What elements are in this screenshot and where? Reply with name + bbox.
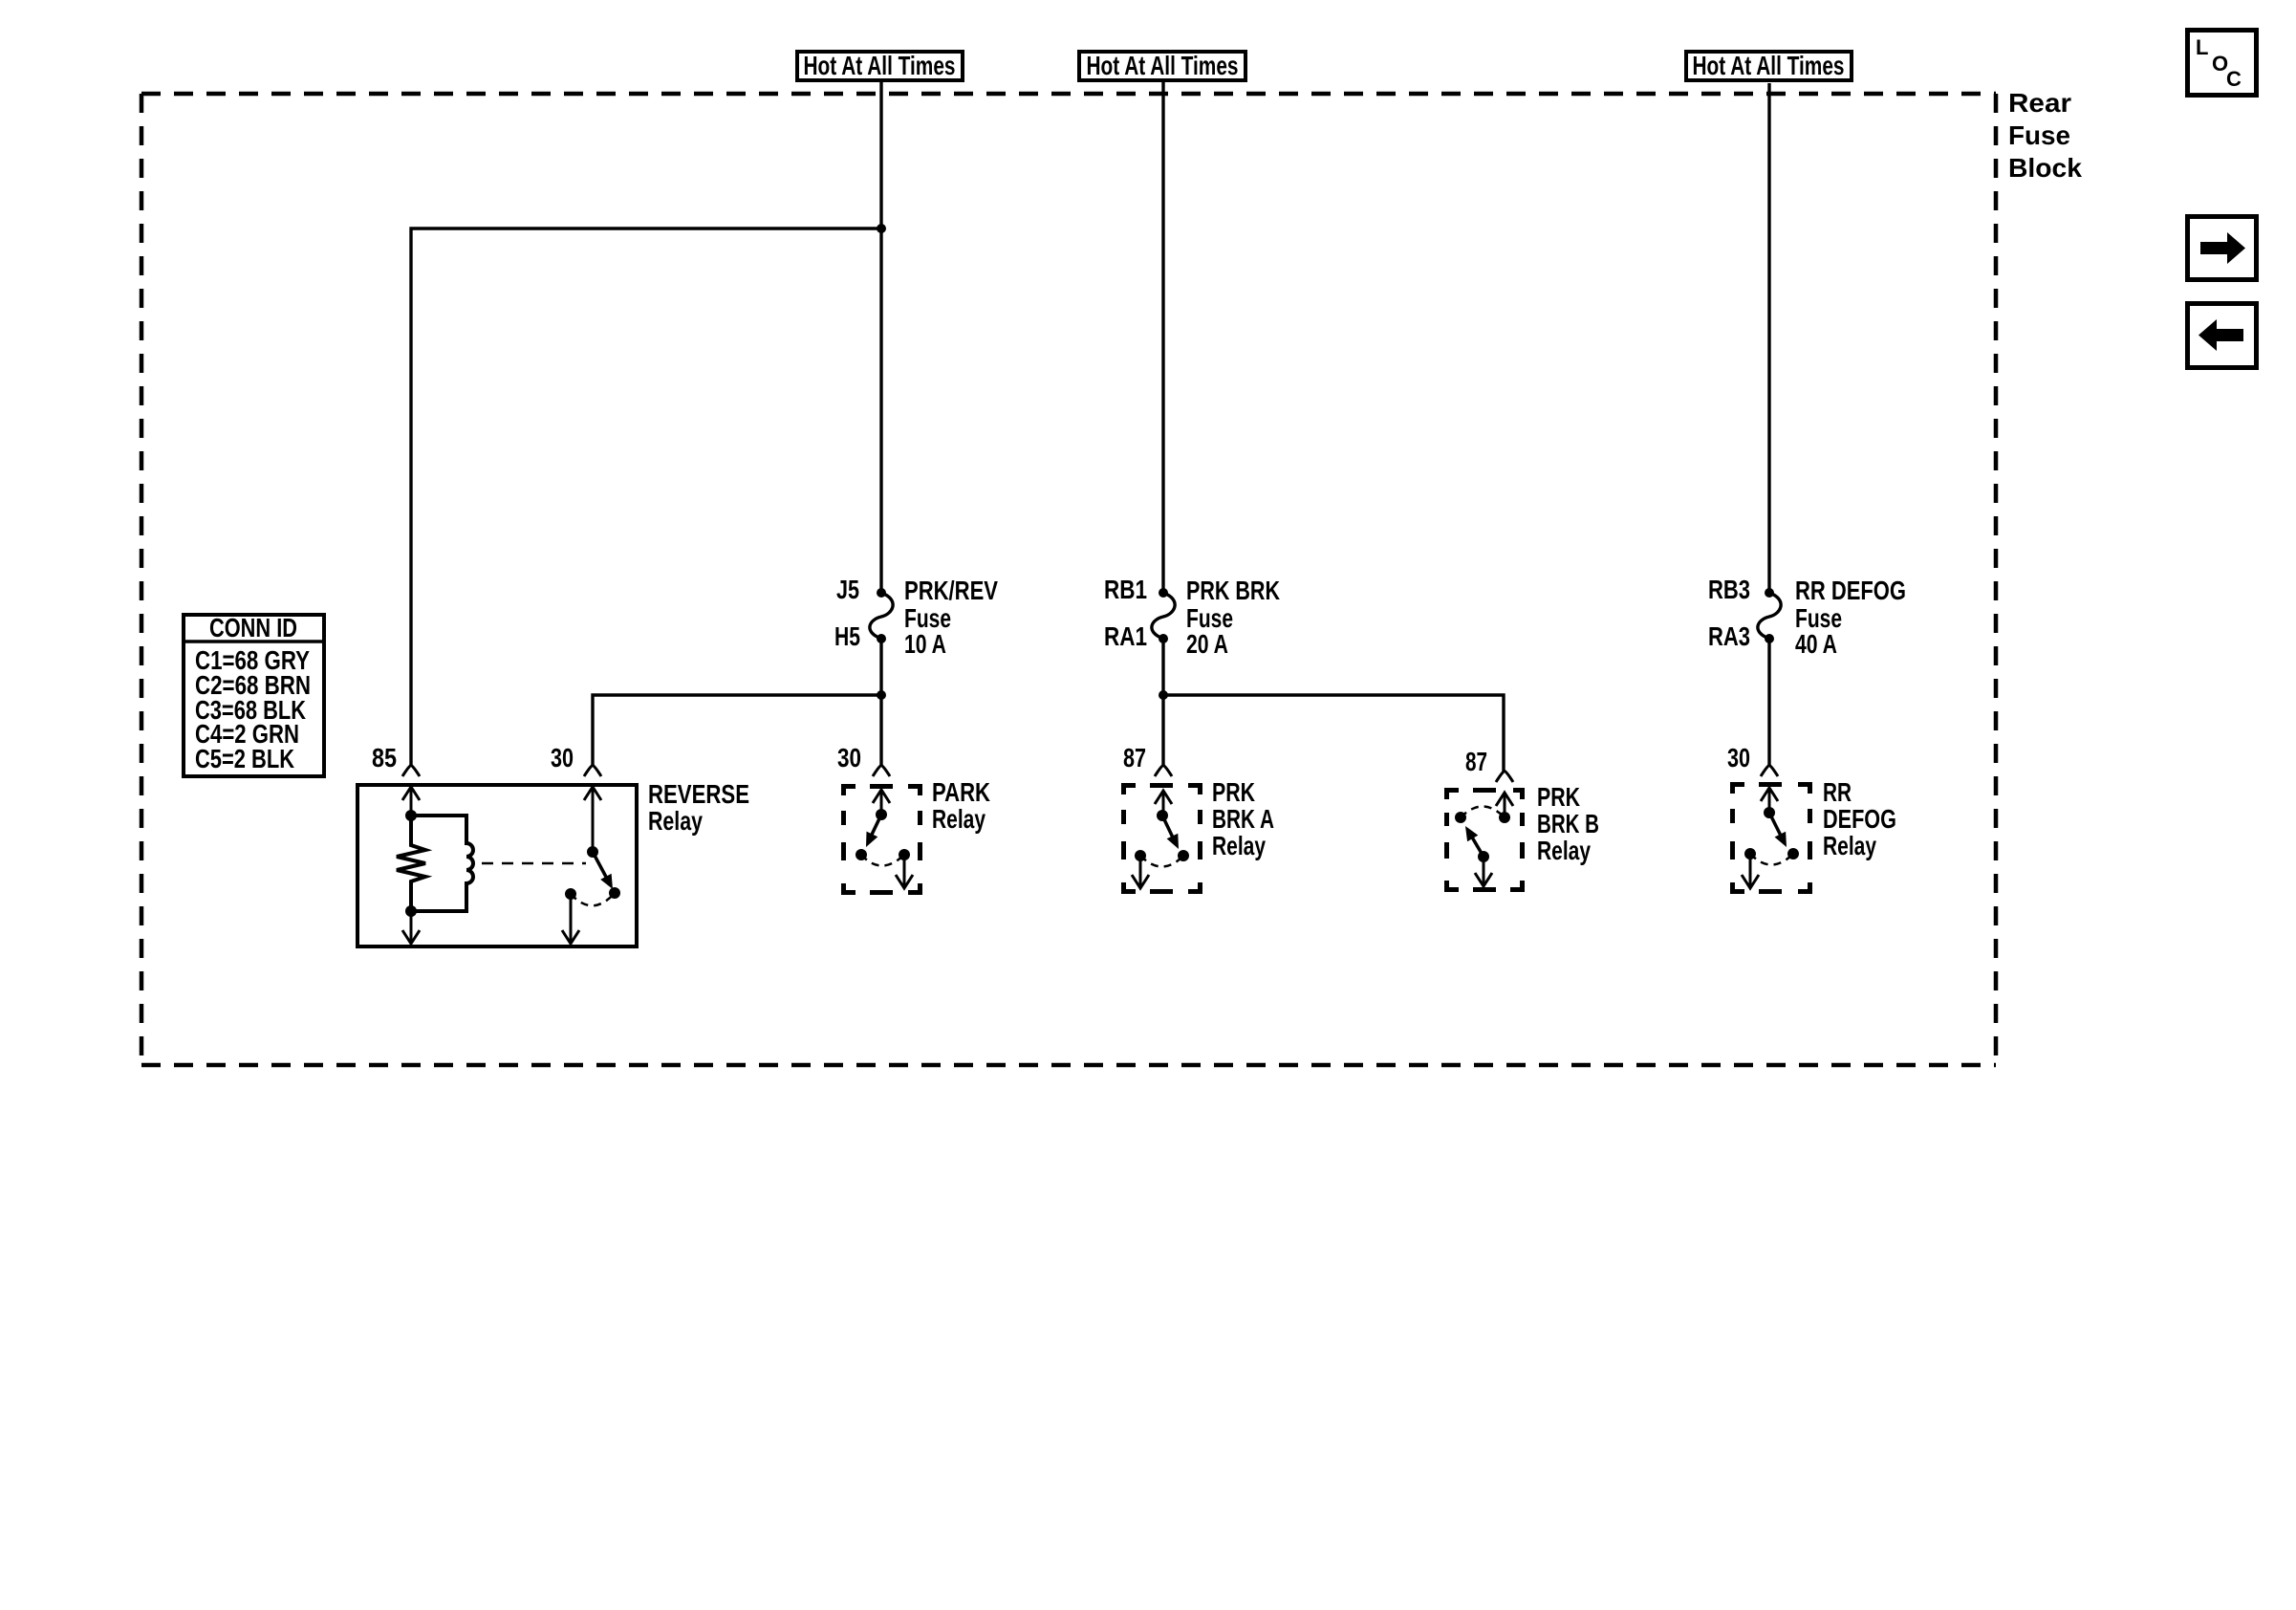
REVERSE relay pin 85 entry arrow (up) [402, 787, 420, 800]
wire: NC contact exit with down arrow (RR DEFOG) [1749, 854, 1752, 887]
svg-text:C5=2 BLK: C5=2 BLK [195, 744, 294, 773]
resistor (REVERSE relay coil suppression) [397, 816, 425, 911]
LOC page-reference box [2188, 31, 2257, 96]
svg-text:RR DEFOG: RR DEFOG [1795, 576, 1906, 605]
node: switch common pole (REVERSE) [587, 846, 598, 858]
relay PARK dashed outline [841, 784, 922, 895]
fuse PRK/REV 10 A (element symbol between J5 and H5) [870, 593, 893, 639]
node: switch common pole (PRK BRK B) [1478, 851, 1489, 862]
wire: branch from fuse2 output to PRK BRK B relay pin 87 [1163, 695, 1504, 772]
next-page arrow box [2188, 217, 2257, 280]
PARK relay pin 30 entry arrow (up) [873, 790, 890, 803]
svg-text:RB3: RB3 [1708, 575, 1750, 604]
node: NC contact (REVERSE) [565, 888, 576, 900]
svg-text:PRK: PRK [1212, 777, 1255, 807]
connector pin 30 chevron (RR DEFOG relay) [1761, 766, 1778, 777]
svg-text:Relay: Relay [1537, 836, 1592, 865]
svg-text:DEFOG: DEFOG [1823, 804, 1896, 834]
junction node fuse1 output branch [877, 690, 886, 700]
switch arm with arrowhead (PRK BRK B) [1471, 836, 1484, 857]
wire: from fuse2 RA1 down to PRK BRK A relay pin 87 [1161, 639, 1164, 767]
svg-text:RA1: RA1 [1104, 621, 1147, 651]
switch arm with arrowhead (REVERSE) [593, 852, 607, 879]
label PRK BRK B Relay [1537, 782, 1599, 865]
label PARK Relay [932, 777, 990, 834]
svg-text:40 A: 40 A [1795, 629, 1837, 659]
svg-text:Relay: Relay [648, 806, 704, 836]
svg-text:PRK: PRK [1537, 782, 1580, 812]
svg-text:H5: H5 [834, 621, 860, 651]
svg-text:PRK/REV: PRK/REV [904, 576, 999, 605]
svg-text:C: C [2226, 67, 2242, 91]
wire: branch from fuse1 output to REVERSE relay pin 30 [593, 695, 881, 767]
label REVERSE Relay [648, 779, 749, 836]
CONN ID table [184, 613, 324, 776]
node: NO contact (RR DEFOG) [1787, 848, 1799, 859]
connector pin 30 chevron (PARK relay) [873, 766, 890, 777]
dashed throw arc (RR DEFOG switch) [1750, 854, 1793, 865]
connector pin 85 chevron (REVERSE relay) [402, 766, 420, 777]
wire: from fuse3 RA3 down to RR DEFOG relay pin 30 [1767, 639, 1770, 767]
node: switch common pole (PRK BRK A) [1157, 810, 1168, 821]
svg-text:20 A: 20 A [1186, 629, 1228, 659]
node: switch common pole (RR DEFOG) [1764, 807, 1775, 818]
power label Hot At All Times (middle) [1079, 51, 1245, 80]
label PRK BRK Fuse 20 A [1186, 576, 1280, 659]
fuse PRK BRK 20 A (element symbol between RB1 and RA1) [1152, 593, 1175, 639]
node: NO contact (PRK BRK A) [1178, 850, 1189, 861]
label PRK BRK A Relay [1212, 777, 1274, 860]
node: switch common pole (PARK) [876, 809, 887, 820]
node: NO contact (PARK) [899, 849, 910, 860]
node: coil top junction [405, 810, 417, 821]
svg-text:Hot At All Times: Hot At All Times [1693, 51, 1845, 80]
connector pin 87 chevron (PRK BRK B relay) [1496, 772, 1513, 783]
svg-text:REVERSE: REVERSE [648, 779, 749, 809]
label Rear Fuse Block [2008, 88, 2082, 183]
relay PRK BRK A dashed outline [1121, 783, 1202, 894]
junction node at fuse1 feed / coil branch [877, 224, 886, 233]
svg-text:Hot At All Times: Hot At All Times [1087, 51, 1239, 80]
svg-text:L: L [2196, 35, 2208, 59]
wire: branch to REVERSE relay coil pin 85 (horizontal at y=239 and vertical x=430) [411, 228, 881, 767]
svg-text:Relay: Relay [932, 804, 986, 834]
label RR DEFOG Relay [1823, 777, 1896, 860]
switch arm with arrowhead (RR DEFOG) [1769, 813, 1781, 836]
svg-text:30: 30 [551, 743, 574, 772]
dashed actuation link coil to switch (REVERSE) [482, 862, 586, 865]
PRK BRK A relay pin 87 entry arrow (up) [1155, 791, 1172, 804]
node: coil bottom junction [405, 905, 417, 917]
svg-text:RA3: RA3 [1708, 621, 1750, 651]
svg-text:87: 87 [1465, 747, 1487, 776]
relay RR DEFOG dashed outline [1730, 782, 1812, 894]
svg-text:10 A: 10 A [904, 629, 946, 659]
svg-text:RB1: RB1 [1104, 575, 1147, 604]
wire: from fuse1 H5 down to PARK relay pin 30 [879, 639, 882, 767]
connector pin 30 chevron (REVERSE relay) [584, 766, 601, 777]
svg-text:CONN ID: CONN ID [209, 613, 297, 642]
fuse RR DEFOG 40 A (element symbol between RB3 and RA3) [1758, 593, 1781, 639]
switch arm with arrowhead (PRK BRK A) [1162, 816, 1173, 838]
svg-text:J5: J5 [836, 575, 859, 604]
node: NO contact (PRK BRK B) [1499, 812, 1510, 823]
svg-text:RR: RR [1823, 777, 1852, 807]
svg-text:Block: Block [2008, 153, 2082, 183]
svg-text:30: 30 [837, 743, 861, 772]
wire: common pole exit with down arrow (PRK BRK B) [1483, 857, 1485, 885]
svg-text:BRK A: BRK A [1212, 804, 1274, 834]
switch arm with arrowhead (PARK) [871, 815, 881, 837]
connector pin 87 chevron (PRK BRK A relay) [1155, 766, 1172, 777]
REVERSE relay pin 86 exit arrow (down) [410, 911, 413, 943]
wire: fuse2 feed vertical from Hot At All Times to RB1 [1161, 82, 1164, 589]
svg-text:85: 85 [372, 743, 397, 772]
svg-text:Fuse: Fuse [2008, 120, 2070, 150]
dashed throw arc (PRK BRK A switch) [1140, 856, 1183, 867]
power label Hot At All Times (left) [797, 51, 963, 80]
dashed throw arc (PARK switch) [861, 855, 904, 866]
svg-text:BRK B: BRK B [1537, 809, 1599, 838]
relay REVERSE (K-reverse) outline box [357, 785, 637, 946]
node: NC contact (PRK BRK A) [1135, 850, 1146, 861]
node: NC contact (RR DEFOG) [1744, 848, 1756, 859]
junction node fuse2 output branch [1159, 690, 1168, 700]
wire: fuse1 feed vertical from Hot At All Times to J5 [879, 82, 882, 589]
svg-text:Relay: Relay [1823, 831, 1877, 860]
relay PRK BRK B dashed outline [1444, 788, 1525, 892]
dashed throw arc (PRK BRK B switch) [1461, 807, 1505, 818]
REVERSE relay pin 30 entry arrow (up) [584, 787, 601, 800]
power label Hot At All Times (right) [1686, 51, 1852, 80]
rear fuse block dashed border [141, 94, 1996, 1065]
svg-text:30: 30 [1727, 743, 1750, 772]
wire: NC contact to pin 87 exit with down arrow (REVERSE) [570, 894, 573, 943]
coil (REVERSE relay winding) [411, 816, 473, 911]
label RR DEFOG Fuse 40 A [1795, 576, 1906, 659]
node: NC contact (PARK) [856, 849, 867, 860]
svg-text:87: 87 [1123, 743, 1146, 772]
node: NO contact (REVERSE) [609, 887, 620, 899]
node: NC contact (PRK BRK B) [1455, 812, 1466, 823]
dashed throw arc (REVERSE switch) [571, 893, 615, 905]
label PRK/REV Fuse 10 A [904, 576, 999, 659]
wire: fuse3 feed vertical from Hot At All Times to RB3 [1767, 83, 1770, 589]
RR DEFOG relay pin 30 entry arrow (up) [1761, 788, 1778, 801]
wire: NC contact exit with down arrow (PRK BRK A) [1139, 856, 1142, 887]
svg-text:Rear: Rear [2008, 88, 2071, 118]
svg-text:Hot At All Times: Hot At All Times [804, 51, 956, 80]
svg-text:Relay: Relay [1212, 831, 1267, 860]
prev-page arrow box [2188, 304, 2257, 368]
svg-text:PARK: PARK [932, 777, 990, 807]
PRK BRK B relay pin 87 entry arrow (up) [1496, 793, 1513, 806]
svg-text:PRK BRK: PRK BRK [1186, 576, 1280, 605]
wire: NO contact exit with down arrow (PARK) [903, 855, 906, 887]
